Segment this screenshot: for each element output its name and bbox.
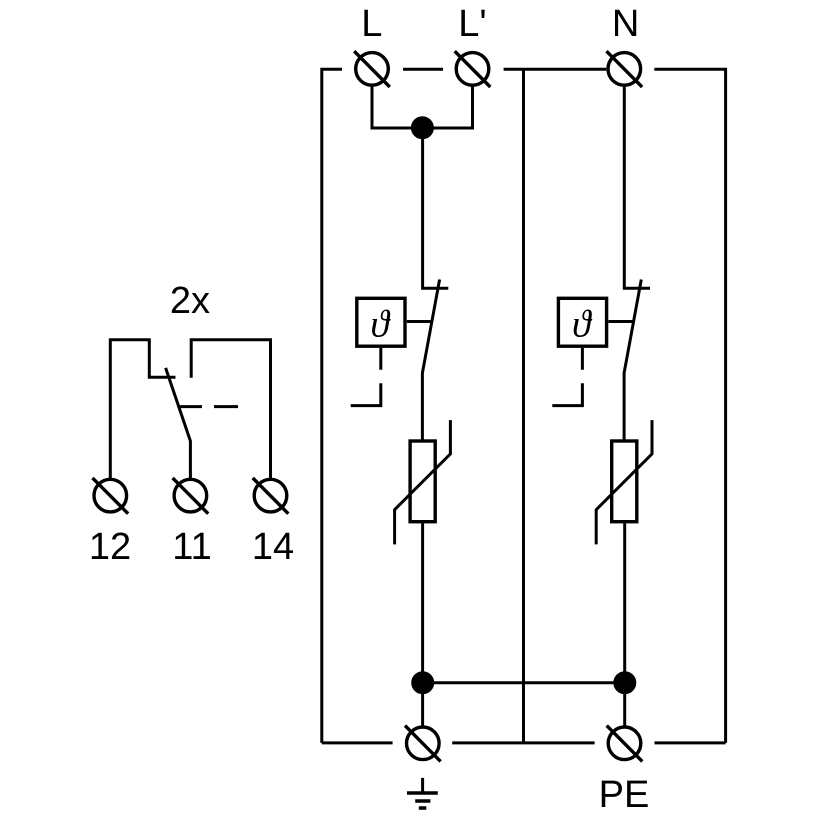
thermal disconnect switch left [422,280,439,442]
enclosure bottom segment right [655,741,726,744]
terminal L [354,51,390,87]
svg-text:ϑ: ϑ [572,304,593,346]
wire sensor box to switch left [407,320,432,323]
enclosure bottom segment left [322,741,393,744]
svg-text:N: N [612,3,639,45]
wire bottom junction bus [423,681,625,684]
thermal sensor box left [357,298,405,346]
dashed mechanical link left [351,348,381,406]
enclosure top segment L' to N [504,68,607,71]
svg-text:ϑ: ϑ [370,304,391,346]
terminal PE [607,726,643,762]
terminal N [607,51,643,87]
terminal L' [455,51,491,87]
svg-text:PE: PE [599,774,650,816]
thermal sensor box right [558,298,606,346]
terminal ground [405,726,441,762]
varistor body right [612,441,637,522]
enclosure middle divider [522,69,525,743]
varistor body left [410,441,435,522]
svg-text:14: 14 [252,526,294,568]
enclosure bottom segment middle [452,741,594,744]
dashed mechanical link right [552,348,582,406]
junction dot L/L' [411,116,434,139]
changeover contact NO path terminal 14 [191,340,270,478]
junction dot bottom right [613,671,636,694]
varistor stroke left [395,420,451,544]
ground symbol [421,778,424,793]
terminal 14 [253,478,289,514]
svg-text:11: 11 [172,526,211,568]
thermal disconnect switch right [624,280,641,442]
wire sensor box to switch right [608,320,633,323]
varistor stroke right [596,420,652,544]
changeover contact NC path terminal 12 [110,340,175,478]
wire left branch upper with disconnect tick [423,128,449,288]
wire varistor to bottom junction right [623,523,626,726]
terminal 11 [173,478,209,514]
changeover contact common arm terminal 11 [166,368,191,478]
terminal 12 [93,478,129,514]
svg-text:L: L [361,3,382,45]
dashed link L to L' [403,68,443,71]
wire right branch upper with disconnect tick [624,87,650,289]
svg-text:L': L' [458,3,486,45]
wire varistor to bottom junction left [421,523,424,726]
junction dot bottom left [411,671,434,694]
svg-text:2x: 2x [170,280,210,322]
enclosure top-right corner and right border [654,69,725,743]
dashed actuation link [179,405,238,408]
svg-text:12: 12 [89,526,131,568]
enclosure border left and top-left stub [322,69,342,743]
wire L and L' join [372,87,473,129]
